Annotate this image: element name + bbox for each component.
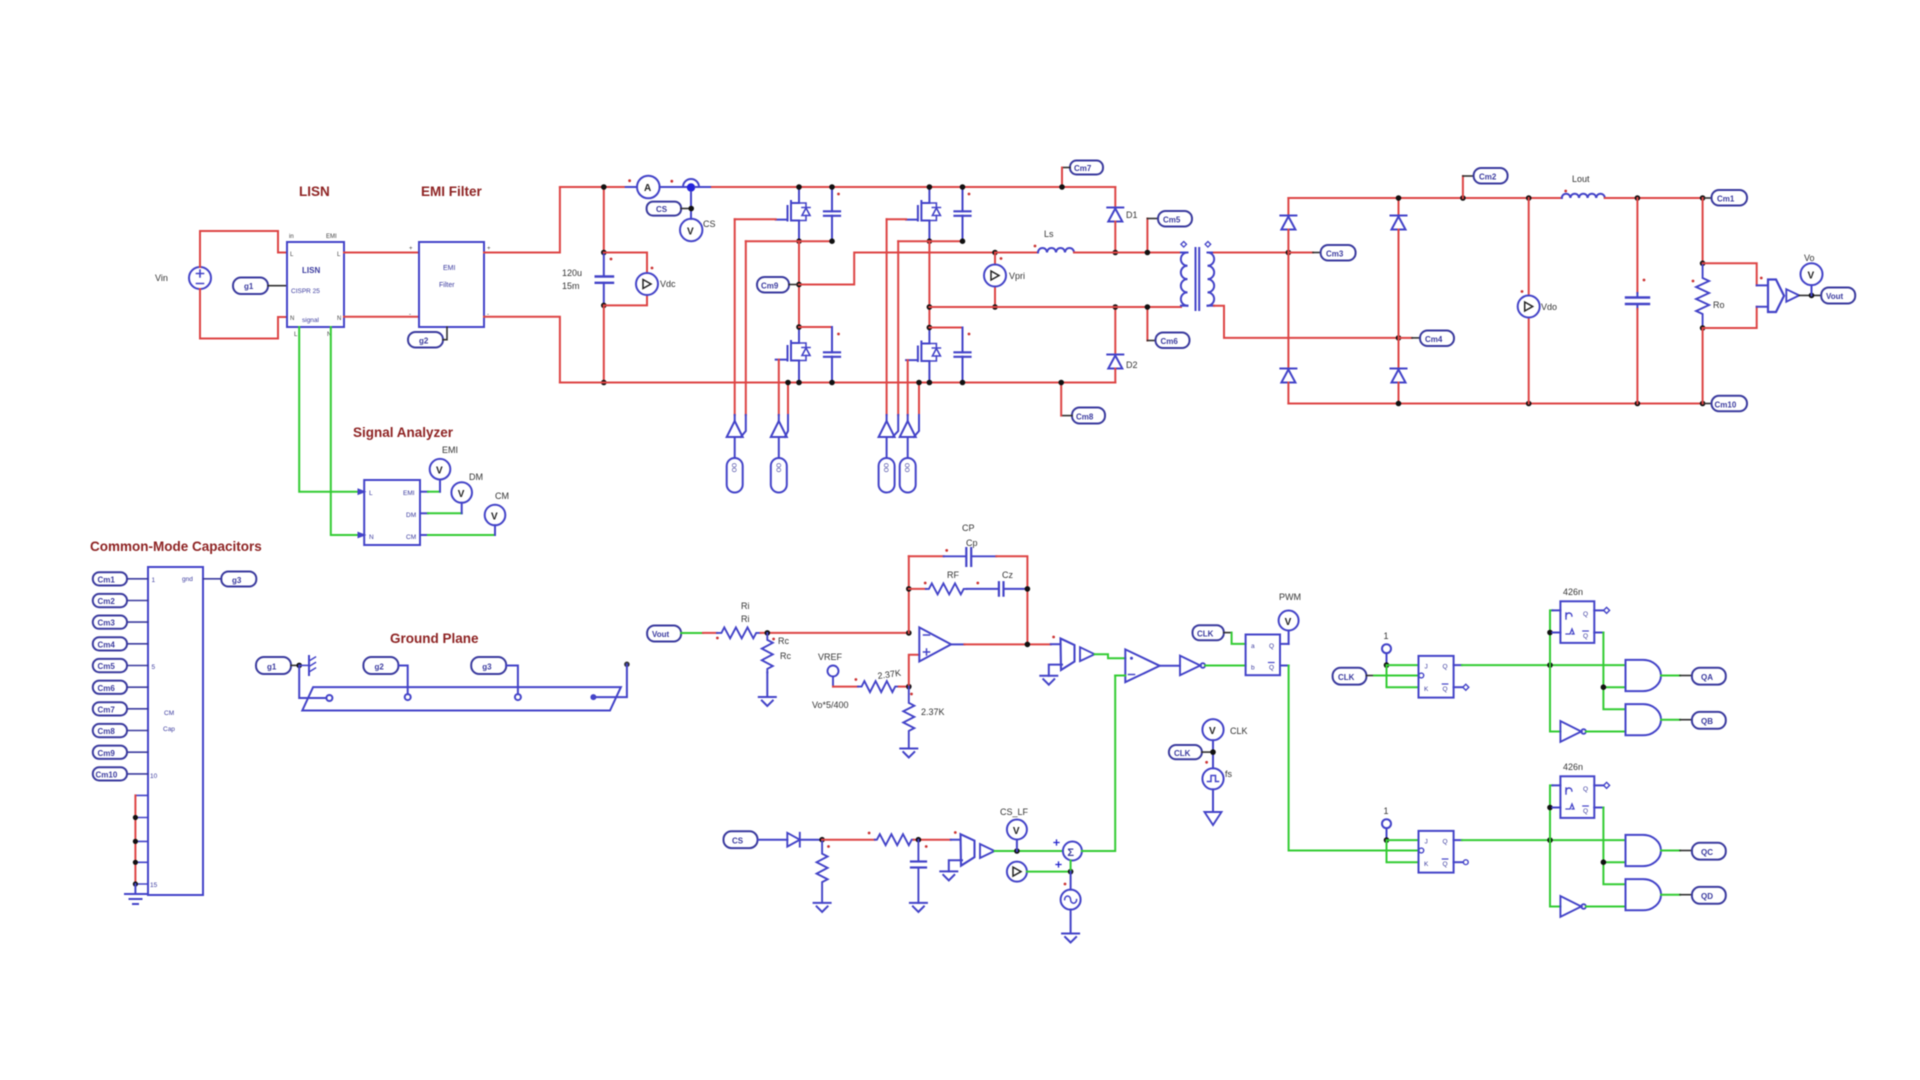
wire xyxy=(626,186,637,188)
ammeter A1 xyxy=(628,176,673,199)
svg-text:V: V xyxy=(458,489,465,500)
svg-text:Cm8: Cm8 xyxy=(98,727,116,736)
node xyxy=(960,238,966,244)
wire xyxy=(1115,675,1125,677)
svg-text:Q: Q xyxy=(1583,808,1588,815)
buffer amp xyxy=(1786,289,1799,302)
svg-text:V: V xyxy=(687,227,694,238)
svg-text:Vout: Vout xyxy=(652,630,670,639)
wire xyxy=(681,632,703,634)
wire xyxy=(603,305,605,382)
mosfet Q2 leg A low xyxy=(776,327,810,382)
terminator xyxy=(1463,860,1468,865)
wire EMI out xyxy=(420,480,440,492)
svg-text:Cm7: Cm7 xyxy=(1074,164,1092,173)
wire source QC xyxy=(898,240,962,242)
wire xyxy=(995,850,1063,852)
wire xyxy=(484,317,560,383)
wire xyxy=(914,839,951,841)
svg-text:Ls: Ls xyxy=(1044,229,1054,239)
svg-text:L: L xyxy=(369,490,373,497)
wire xyxy=(398,666,407,695)
svg-text:Cm6: Cm6 xyxy=(98,684,116,693)
tag Cm7 xyxy=(93,702,148,715)
node junction xyxy=(688,206,694,212)
wire ground pins bus xyxy=(135,795,148,884)
node xyxy=(796,380,802,386)
svg-text:Cm9: Cm9 xyxy=(98,749,116,758)
node xyxy=(1547,837,1553,843)
svg-text:Filter: Filter xyxy=(439,282,455,289)
svg-text:A: A xyxy=(644,183,651,194)
tag Cm2 xyxy=(1463,168,1508,198)
node xyxy=(796,238,802,244)
svg-text:PWM: PWM xyxy=(1279,592,1301,602)
wire CP top xyxy=(909,555,944,557)
buffer B1 xyxy=(1080,647,1095,661)
node xyxy=(1526,401,1532,407)
svg-text:Q: Q xyxy=(1583,786,1588,793)
mosfet Q3 leg B high xyxy=(906,187,940,242)
svg-text:Cm3: Cm3 xyxy=(1326,250,1344,259)
svg-text:Rc: Rc xyxy=(778,636,789,646)
node xyxy=(785,380,791,386)
wire xyxy=(1374,675,1419,677)
ground xyxy=(759,697,776,706)
tag Vout xyxy=(1821,288,1855,304)
svg-text:EMI: EMI xyxy=(403,490,415,497)
voltage probe CS_LF xyxy=(1000,807,1029,851)
tag g1 xyxy=(233,278,287,295)
node xyxy=(1384,837,1390,843)
tag Cm9 xyxy=(757,277,799,293)
wire limiter gnd hook xyxy=(1049,665,1062,676)
node pad xyxy=(515,694,521,700)
tag g2 xyxy=(408,327,447,348)
svg-text:Cm2: Cm2 xyxy=(98,597,116,606)
and gate A3 xyxy=(1626,835,1661,866)
wire xyxy=(1603,633,1625,710)
wire xyxy=(745,241,747,415)
node xyxy=(916,837,922,843)
svg-text:J: J xyxy=(1425,839,1428,846)
voltage source Vin xyxy=(189,267,211,289)
wire xyxy=(1212,789,1214,812)
node xyxy=(829,238,835,244)
wire xyxy=(1060,383,1062,416)
wire Q1 out xyxy=(1454,664,1462,666)
flip-flop PWM latch xyxy=(1246,635,1280,676)
voltage probe Vo xyxy=(1801,253,1823,295)
resistor RF xyxy=(924,582,967,595)
wire xyxy=(1387,840,1419,862)
tag g3 out xyxy=(203,572,256,587)
wire xyxy=(758,839,788,841)
wire xyxy=(929,327,962,329)
wire xyxy=(1661,675,1680,677)
svg-text:Σ: Σ xyxy=(1067,847,1074,859)
node xyxy=(1068,869,1074,875)
svg-text:Cm10: Cm10 xyxy=(96,770,118,779)
tag QD xyxy=(1680,887,1726,904)
svg-text:N: N xyxy=(290,316,294,322)
rectifier diode DR1 xyxy=(1280,198,1296,253)
tag Cm2 xyxy=(93,594,148,607)
wire gate QD xyxy=(907,360,909,415)
svg-text:CS: CS xyxy=(732,837,744,846)
rectifier diode DR2 xyxy=(1391,198,1407,338)
wire xyxy=(1070,860,1072,871)
capacitor C1 cs xyxy=(911,840,928,903)
node xyxy=(133,815,138,820)
svg-text:Vout: Vout xyxy=(1826,292,1844,301)
voltage probe CM xyxy=(485,491,509,525)
voltage sensor VS1 xyxy=(1760,277,1784,312)
wire Qbar1 stub xyxy=(1454,686,1463,688)
wire xyxy=(1462,839,1626,841)
wire xyxy=(761,632,909,634)
voltage probe EMI xyxy=(430,445,458,480)
wire xyxy=(967,588,999,590)
wire gate QC xyxy=(886,219,888,415)
svg-text:Lout: Lout xyxy=(1572,174,1590,184)
diode D1 xyxy=(1107,208,1123,222)
tag Cm10 xyxy=(1703,396,1747,412)
tag Cm8 xyxy=(93,724,148,737)
voltage probe CLK xyxy=(1202,719,1247,740)
svg-text:Vo*5/400: Vo*5/400 xyxy=(812,700,849,710)
ground xyxy=(940,871,957,880)
wire xyxy=(833,686,858,688)
wire bottom dc bus xyxy=(560,382,1115,384)
capacitor snubber A low xyxy=(824,327,840,383)
svg-text:g1: g1 xyxy=(267,663,277,672)
terminator xyxy=(1604,782,1610,788)
node xyxy=(601,184,607,190)
monostable M1 xyxy=(1560,601,1594,643)
wire gate QA xyxy=(734,219,736,415)
sine source slope xyxy=(1061,872,1081,910)
svg-text:N: N xyxy=(369,534,374,541)
wire mono1 feed xyxy=(1550,610,1552,665)
svg-text:Q: Q xyxy=(1269,643,1274,650)
wire sensor loop top xyxy=(1703,263,1757,285)
svg-text:LISN: LISN xyxy=(302,266,320,275)
ground xyxy=(910,903,927,912)
diode D2 xyxy=(1107,355,1123,369)
node xyxy=(1700,401,1706,407)
wire xyxy=(887,415,899,437)
svg-text:g1: g1 xyxy=(244,282,254,291)
tag QA xyxy=(1680,668,1726,685)
block CM cap bank U4 xyxy=(148,567,203,895)
svg-text:N: N xyxy=(337,316,341,322)
tag CLK src xyxy=(1169,745,1213,759)
tag CS xyxy=(647,202,692,216)
capacitor output xyxy=(1626,198,1649,404)
capacitor CP xyxy=(944,548,997,566)
svg-text:Cm8: Cm8 xyxy=(1076,413,1094,422)
node xyxy=(906,630,912,636)
node Ls input xyxy=(992,250,998,256)
wire xyxy=(1661,850,1680,852)
node xyxy=(796,184,802,190)
tag Cm6 xyxy=(93,681,148,694)
node xyxy=(1025,642,1031,648)
svg-text:D1: D1 xyxy=(1126,210,1138,220)
wire xyxy=(200,289,287,339)
svg-text:V: V xyxy=(1209,726,1216,737)
wire xyxy=(799,326,832,328)
node xyxy=(1113,304,1119,310)
wire xyxy=(887,218,907,220)
tag Cm7 xyxy=(1062,161,1103,175)
svg-text:Cm10: Cm10 xyxy=(1715,400,1737,409)
wire xyxy=(1757,285,1768,306)
wire mono2 q stub xyxy=(1594,784,1603,786)
wire mono1 qbar xyxy=(1594,632,1603,634)
node xyxy=(796,324,802,330)
svg-text:a: a xyxy=(1251,643,1255,650)
ground xyxy=(1040,676,1057,685)
wire 120u riser xyxy=(603,187,605,253)
svg-text:120u: 120u xyxy=(562,268,582,278)
node xyxy=(133,881,138,886)
wire xyxy=(1462,664,1626,666)
capacitor snubber B high xyxy=(955,187,971,241)
node xyxy=(1384,662,1390,668)
svg-text:DM: DM xyxy=(469,472,483,482)
wire secondary top xyxy=(1214,252,1288,254)
wire to opamp plus xyxy=(909,655,920,687)
svg-text:QA: QA xyxy=(1701,673,1713,682)
tag g3 gp xyxy=(471,657,506,674)
wire xyxy=(908,415,919,437)
wire node stem xyxy=(690,192,692,219)
wire onoff2 source tap xyxy=(787,383,789,416)
svg-text:K: K xyxy=(1424,686,1429,693)
node xyxy=(796,282,802,288)
gating block OO4 xyxy=(900,421,916,493)
comparator U6 xyxy=(1125,649,1159,682)
svg-text:RF: RF xyxy=(947,570,959,580)
wire sensor loop bottom xyxy=(1703,307,1757,328)
limiter L2 xyxy=(951,831,975,866)
svg-text:10: 10 xyxy=(150,773,158,780)
svg-text:5: 5 xyxy=(152,664,156,671)
svg-text:g2: g2 xyxy=(375,663,385,672)
wire output top rail xyxy=(1288,197,1561,199)
resistor 2.37K a xyxy=(855,678,899,692)
node pad xyxy=(590,694,596,700)
ground xyxy=(1062,934,1079,943)
ground triangle xyxy=(1205,812,1222,825)
rectifier diode DR4 xyxy=(1391,338,1407,404)
svg-text:CLK: CLK xyxy=(1197,630,1214,639)
node xyxy=(927,184,933,190)
capacitor 120u 15m xyxy=(596,253,613,306)
transformer T1 xyxy=(1181,242,1214,311)
node xyxy=(1113,250,1119,256)
svg-text:V: V xyxy=(1013,826,1020,837)
node xyxy=(601,250,607,256)
svg-text:CP: CP xyxy=(962,523,975,533)
node xyxy=(1014,848,1020,854)
svg-text:+: + xyxy=(487,246,491,252)
monostable M2 xyxy=(1560,776,1594,818)
node xyxy=(296,663,302,669)
svg-text:Cp: Cp xyxy=(966,538,978,548)
node xyxy=(1700,195,1706,201)
wire xyxy=(1027,871,1071,873)
svg-text:Ri: Ri xyxy=(741,614,750,624)
wire xyxy=(800,839,822,841)
wire xyxy=(779,415,788,437)
block LISN U1 xyxy=(287,234,344,338)
capacitor Cz xyxy=(976,582,1003,596)
node xyxy=(1059,184,1065,190)
rectifier diode DR3 xyxy=(1280,253,1296,404)
node xyxy=(1601,859,1607,865)
wire top dc bus right xyxy=(712,186,1115,188)
inductor Lout xyxy=(1562,190,1605,198)
wire green LISN N to analyzer xyxy=(331,327,358,535)
svg-text:EMI: EMI xyxy=(326,234,337,240)
ground earth xyxy=(125,884,146,904)
buffer B2 xyxy=(980,844,995,858)
wire primary bottom rail xyxy=(929,306,1181,308)
node xyxy=(1058,380,1064,386)
wire summer out xyxy=(1082,676,1115,852)
svg-text:CS: CS xyxy=(703,219,716,229)
capacitor snubber A high xyxy=(824,187,840,241)
node xyxy=(1526,195,1532,201)
tag QB xyxy=(1680,712,1726,729)
ground plane sheet xyxy=(302,687,621,710)
tag Cm5 xyxy=(1145,211,1192,255)
wire xyxy=(1661,719,1680,721)
tag QC xyxy=(1680,843,1726,860)
svg-text:signal: signal xyxy=(302,317,320,324)
mosfet Q1 leg A high xyxy=(776,187,810,242)
node xyxy=(1025,586,1031,592)
node xyxy=(1547,805,1553,811)
wire xyxy=(506,666,518,695)
node xyxy=(960,184,966,190)
node xyxy=(1547,662,1553,668)
inverter I2 xyxy=(1560,896,1585,917)
wire xyxy=(344,316,419,318)
wire leg B phase xyxy=(928,241,930,327)
svg-text:Vpri: Vpri xyxy=(1009,271,1025,281)
tag g2 gp xyxy=(363,657,398,674)
tag CLK pwm xyxy=(1193,625,1232,640)
wire xyxy=(1661,894,1680,896)
wire mono2 feed xyxy=(1550,785,1552,840)
svg-text:b: b xyxy=(1251,665,1255,672)
tag CLK a xyxy=(1333,668,1374,685)
svg-text:Q: Q xyxy=(1269,665,1274,672)
tag Cm3 xyxy=(1288,245,1355,261)
resistor 2.37K b xyxy=(903,687,914,748)
tag Cm6 xyxy=(1145,304,1190,348)
svg-text:QC: QC xyxy=(1701,848,1713,857)
svg-text:EMI: EMI xyxy=(443,265,456,272)
svg-text:Ground Plane: Ground Plane xyxy=(390,631,479,646)
constant 1 b xyxy=(1382,806,1391,840)
wire xyxy=(134,795,136,884)
resistor Ri xyxy=(716,627,761,639)
svg-text:Cm4: Cm4 xyxy=(1425,335,1443,344)
terminator xyxy=(1604,607,1610,613)
tag Vout source xyxy=(647,626,681,642)
gating block OO2 xyxy=(771,421,787,493)
wire xyxy=(1212,740,1214,768)
node xyxy=(829,380,835,386)
svg-text:CISPR 25: CISPR 25 xyxy=(291,288,320,295)
node pad xyxy=(326,695,332,701)
svg-text:V: V xyxy=(1285,617,1292,628)
node xyxy=(992,304,998,310)
block EMI Filter U2 xyxy=(409,242,491,327)
wire xyxy=(1205,665,1246,667)
wire DM out xyxy=(420,503,462,514)
wire xyxy=(703,632,717,634)
node xyxy=(1460,195,1466,201)
wire xyxy=(1586,906,1626,908)
svg-text:1: 1 xyxy=(1384,631,1389,641)
wire xyxy=(1552,785,1560,807)
node xyxy=(927,380,933,386)
node xyxy=(1396,335,1402,341)
node xyxy=(1547,630,1553,636)
wire xyxy=(1114,222,1116,253)
tag Cm8 xyxy=(1061,408,1105,424)
wire secondary bottom xyxy=(1214,306,1399,338)
wire xyxy=(484,187,560,253)
svg-text:Cm1: Cm1 xyxy=(1717,195,1735,204)
svg-text:-: - xyxy=(409,312,411,318)
gating block OO3 xyxy=(879,421,895,493)
tag CS src xyxy=(724,831,758,848)
svg-text:Q: Q xyxy=(1583,611,1588,618)
svg-text:15: 15 xyxy=(150,882,158,889)
wire xyxy=(1552,610,1560,632)
wire xyxy=(995,252,1038,254)
node xyxy=(1396,195,1402,201)
svg-text:426n: 426n xyxy=(1563,762,1583,772)
svg-text:Q: Q xyxy=(1443,839,1448,846)
svg-text:Rc: Rc xyxy=(780,651,791,661)
svg-text:CLK: CLK xyxy=(1174,749,1191,758)
svg-text:Ri: Ri xyxy=(741,601,750,611)
svg-text:fs: fs xyxy=(1225,769,1233,779)
tag Cm9 xyxy=(93,746,148,759)
inverter I1 xyxy=(1560,721,1585,742)
svg-text:Cm4: Cm4 xyxy=(98,640,116,649)
svg-text:CLK: CLK xyxy=(1338,673,1355,682)
terminator xyxy=(1463,684,1469,690)
node xyxy=(1635,401,1641,407)
op-amp U5 xyxy=(919,627,951,661)
svg-text:in: in xyxy=(289,234,294,240)
wire xyxy=(766,672,768,697)
svg-text:CM: CM xyxy=(164,710,174,717)
current probe ref xyxy=(1007,862,1027,882)
node xyxy=(960,380,966,386)
svg-text:QB: QB xyxy=(1701,717,1713,726)
svg-text:Q: Q xyxy=(1443,664,1448,671)
